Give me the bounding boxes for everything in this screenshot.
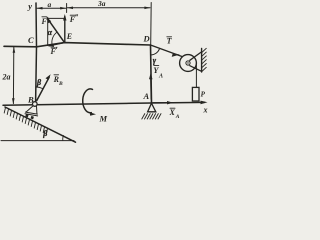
svg-text:C: C	[28, 35, 34, 45]
svg-text:A: A	[143, 91, 150, 101]
reaction Y_A	[150, 76, 152, 100]
svg-text:F: F	[41, 17, 48, 26]
incline hatching	[4, 108, 47, 135]
incline angle arc	[62, 136, 65, 141]
pulley bracket	[190, 52, 202, 71]
svg-text:x: x	[203, 106, 208, 115]
svg-text:M: M	[99, 114, 108, 124]
angle beta arc at B	[36, 87, 43, 89]
svg-text:β: β	[42, 129, 48, 138]
roller carriage under B	[25, 106, 38, 116]
svg-text:3a: 3a	[97, 0, 106, 8]
node x-axis arrowhead	[201, 101, 208, 105]
moment M arc	[83, 89, 93, 113]
reaction X_A	[153, 102, 171, 104]
dimension 2a (left)	[12, 47, 14, 103]
angle gamma arc at D	[151, 49, 160, 55]
svg-text:y: y	[27, 1, 32, 11]
pin support at A (triangle)	[148, 103, 156, 112]
svg-text:α: α	[48, 28, 53, 37]
wire: y-axis / left member C-B	[35, 3, 38, 102]
pulley hub	[186, 61, 190, 65]
svg-text:D: D	[143, 34, 150, 44]
rope to weight P	[195, 64, 197, 88]
force F at E	[48, 19, 65, 43]
svg-text:X: X	[169, 108, 176, 117]
wire: parallelogram construction horizontal	[48, 17, 65, 19]
svg-text:″: ″	[75, 14, 79, 22]
wall line	[201, 49, 203, 73]
tick above E	[66, 4, 68, 13]
reaction R_B at B	[37, 77, 49, 100]
weight P box	[192, 87, 199, 101]
svg-text:A: A	[175, 114, 180, 120]
svg-text:′: ′	[56, 46, 58, 54]
wall hatching	[202, 48, 207, 71]
angle alpha arc	[52, 32, 57, 45]
dimension 3a (top)	[67, 7, 150, 9]
hatching under A support	[142, 114, 161, 119]
pulley circle	[180, 55, 197, 72]
dimension a (top-left)	[37, 7, 66, 9]
force F' (component along member)	[50, 43, 65, 46]
svg-text:B: B	[58, 81, 63, 87]
wire: bottom member B-A and x-axis	[3, 102, 205, 105]
roller wheels	[25, 114, 28, 117]
svg-text:P: P	[201, 91, 206, 99]
svg-text:β: β	[36, 78, 42, 87]
ground line bottom-left	[1, 140, 74, 142]
inclined surface	[5, 107, 76, 142]
wire: top member C-D with left extension	[4, 43, 151, 47]
svg-text:2a: 2a	[2, 73, 11, 82]
svg-text:a: a	[48, 0, 52, 9]
wire: extension line above D	[150, 3, 153, 45]
svg-text:E: E	[66, 32, 72, 41]
pin circle at B	[33, 102, 38, 107]
svg-text:A: A	[158, 74, 163, 80]
force F'' (vertical component)	[64, 17, 66, 43]
wire: right member D-A	[151, 45, 152, 103]
wire: parallelogram construction vertical	[47, 17, 49, 45]
rope D to pulley with tension T	[151, 45, 183, 57]
